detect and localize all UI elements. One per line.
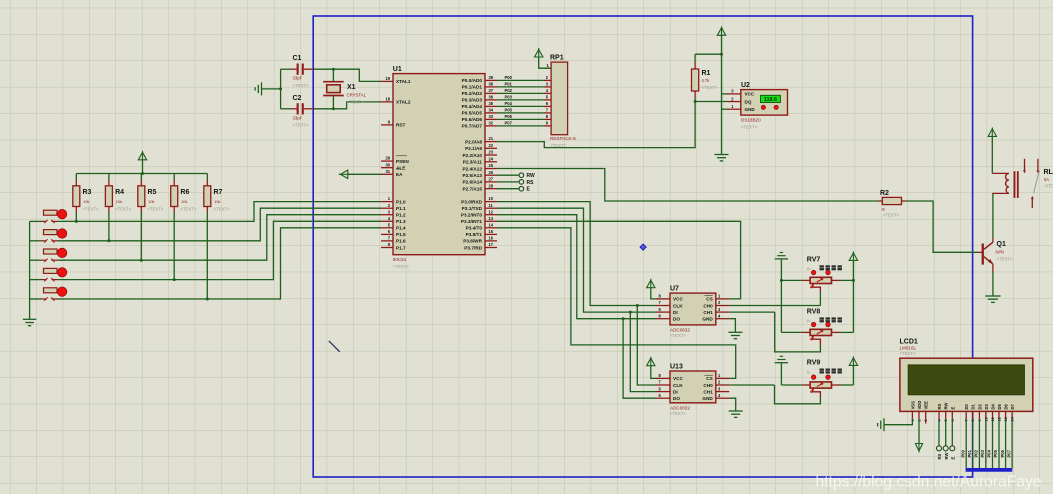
svg-text:R4: R4	[115, 189, 124, 196]
wire LCD D2 to bus	[978, 419, 980, 468]
junction cap rail	[279, 87, 282, 90]
svg-text:P03: P03	[980, 449, 985, 457]
svg-text:CH1: CH1	[703, 310, 713, 315]
wire LCD D0 to bus	[965, 419, 967, 468]
resistor R1	[694, 54, 696, 62]
svg-text:30: 30	[385, 162, 390, 167]
LCD pin 6 E	[951, 411, 953, 419]
svg-text:P0.7/AD7: P0.7/AD7	[462, 124, 483, 129]
svg-text:P0.2/AD2: P0.2/AD2	[462, 91, 483, 96]
wire P3.1 to U7 DI	[497, 208, 656, 312]
svg-text:R6: R6	[180, 189, 189, 196]
svg-text:P06: P06	[1000, 449, 1005, 457]
junction R7 row	[206, 298, 209, 301]
wire CLK tap to U13	[637, 306, 656, 386]
LCD pin 11 D4	[992, 411, 994, 419]
svg-text:P3.3/INT1: P3.3/INT1	[461, 219, 482, 224]
adc U7 body	[670, 293, 716, 325]
U7 pin 6 DO	[656, 318, 670, 320]
svg-text:39: 39	[489, 75, 494, 80]
svg-text:P07: P07	[1006, 449, 1011, 457]
svg-text:P04: P04	[987, 449, 992, 457]
svg-text:15: 15	[489, 229, 494, 234]
RP1 pin 7	[544, 112, 552, 114]
U7 pin 2 CH0	[716, 305, 730, 307]
wire C1 to XTAL1	[314, 69, 382, 81]
resistor pack RP1	[551, 62, 568, 135]
svg-text:D6: D6	[1004, 403, 1009, 409]
wire RV7 right	[840, 279, 853, 281]
svg-text:VCC: VCC	[673, 297, 684, 302]
wire P3.3 to U7 CS	[497, 221, 741, 299]
svg-text:RW: RW	[944, 453, 949, 460]
svg-text:<TEXT>: <TEXT>	[393, 264, 409, 269]
terminal RS (LCD)	[938, 419, 940, 446]
svg-text:1k: 1k	[881, 206, 885, 211]
U7 pin 5 DI	[656, 311, 670, 313]
wire RV9 wiper to U13 CH0	[775, 385, 821, 404]
ground (RV rail upper)	[780, 252, 783, 254]
U1 pin 32 P0.7/AD7	[485, 125, 497, 127]
wire P3.4 to U13 CS	[497, 228, 736, 379]
U1 pin 22 P2.1/A9	[485, 147, 497, 149]
svg-text:25: 25	[489, 163, 494, 168]
power arrow down (LCD VDD)	[918, 419, 920, 443]
svg-text:33: 33	[489, 114, 494, 119]
svg-text:RV8: RV8	[807, 309, 821, 316]
junction R3 row	[75, 220, 78, 223]
power arrow (U7)	[647, 280, 655, 288]
origin marker	[640, 244, 646, 250]
junction CLK tap	[636, 304, 639, 307]
power arrow (DS18B20 rail)	[717, 28, 725, 36]
wire EA	[348, 173, 381, 175]
U1 pin 7 P1.6	[381, 240, 393, 242]
relay contact NO pin	[1037, 159, 1039, 171]
svg-text:LCD1: LCD1	[900, 338, 918, 345]
svg-text:DS18B20: DS18B20	[741, 117, 761, 122]
LCD pin 10 D3	[985, 411, 987, 419]
svg-text:RP1: RP1	[550, 55, 564, 62]
svg-text:P2.7/A15: P2.7/A15	[462, 187, 482, 192]
svg-text:CS: CS	[706, 376, 713, 381]
RV8 right lead	[832, 331, 841, 333]
key button 4	[30, 279, 41, 281]
U13 pin 1 CS	[716, 377, 730, 379]
U1 pin 16 P3.6/WR	[485, 240, 497, 242]
wire C2 to XTAL2	[314, 102, 382, 109]
junction DI tap	[629, 311, 632, 314]
svg-text:R5: R5	[148, 189, 157, 196]
wire DQ to U2	[695, 101, 728, 103]
svg-text:VEE: VEE	[924, 401, 929, 410]
svg-text:P1.3: P1.3	[396, 219, 406, 224]
wire RV power rail	[852, 260, 854, 332]
relay switch arm	[1034, 171, 1040, 193]
svg-text:19: 19	[385, 76, 390, 81]
svg-text:P2.5/A13: P2.5/A13	[462, 173, 482, 178]
svg-text:LM016L: LM016L	[900, 345, 917, 350]
wire RV7 wiper to U7 CH0	[819, 292, 821, 305]
svg-text:14: 14	[489, 222, 494, 227]
junction crystal top	[332, 68, 335, 71]
svg-text:U13: U13	[670, 364, 683, 371]
wire DI tap to U13	[630, 312, 656, 392]
svg-text:<TEXT>: <TEXT>	[883, 213, 899, 218]
U13 pin 2 CH0	[716, 384, 730, 386]
power arrow (RV9)	[849, 358, 857, 366]
svg-text:RL1: RL1	[1044, 169, 1053, 176]
junction RV7 left	[780, 279, 783, 282]
svg-text:CLK: CLK	[673, 303, 683, 308]
svg-text:119.6: 119.6	[764, 97, 777, 103]
wire U2 GND	[722, 108, 729, 110]
svg-text:P01: P01	[967, 449, 972, 457]
svg-text:10k: 10k	[181, 199, 187, 204]
U7 pin 8 VCC	[656, 298, 670, 300]
svg-text:<TEXT>: <TEXT>	[670, 411, 686, 416]
wire LCD VSS to ground	[884, 419, 912, 425]
capacitor C2	[281, 108, 291, 110]
wire RV8 left	[781, 331, 801, 333]
wire ground to cap rail	[262, 88, 281, 90]
wire R4 to key row 2	[108, 213, 110, 241]
svg-text:21: 21	[489, 136, 494, 141]
key button 5	[30, 298, 41, 300]
LCD pin 4 RS	[938, 411, 940, 419]
U2 button dots	[761, 105, 765, 109]
U7 pin 7 CLK	[656, 305, 670, 307]
svg-text:P0.1/AD1: P0.1/AD1	[462, 85, 483, 90]
wire U7 GND to ground	[729, 319, 735, 332]
wire RV8 right	[840, 331, 853, 333]
wire Q1 collector to relay	[992, 238, 994, 242]
relay core	[1014, 171, 1016, 198]
junction RV7 right	[852, 279, 855, 282]
svg-text:X1: X1	[347, 84, 356, 91]
ground (RV9 rail)	[780, 355, 783, 357]
wire LCD D1 to bus	[972, 419, 974, 468]
U1 pin 3 P1.2	[381, 214, 393, 216]
svg-text:RW: RW	[527, 173, 536, 179]
U1 pin 36 P0.3/AD3	[485, 99, 497, 101]
RP1 pin 8	[544, 118, 552, 120]
svg-text:33pF: 33pF	[293, 76, 303, 81]
power arrow (RP1)	[535, 50, 543, 58]
U1 pin 37 P0.2/AD2	[485, 92, 497, 94]
wire R3 to key row 1	[75, 213, 77, 222]
RP1 pin 6	[544, 105, 552, 107]
RP1 pin 4	[544, 92, 552, 94]
svg-text:P00: P00	[505, 75, 513, 80]
svg-text:P3.6/WR: P3.6/WR	[463, 239, 482, 244]
wire power rail to ground (U2 column)	[721, 35, 723, 154]
ground (U13)	[729, 410, 743, 412]
RV7 wiper	[813, 284, 821, 293]
lcd screen	[908, 365, 1024, 395]
svg-text:R2: R2	[880, 190, 889, 197]
wire P2.4 to R2	[497, 169, 878, 202]
wire RV9 power stem	[852, 365, 854, 385]
svg-text:CH1: CH1	[703, 389, 713, 394]
RV8 wiper	[813, 336, 821, 345]
bus segment	[966, 468, 1013, 472]
svg-text:13: 13	[489, 216, 494, 221]
svg-text:CRYSTAL: CRYSTAL	[347, 92, 367, 97]
U1 pin 26 P2.5/A13	[485, 174, 497, 176]
U7 pin 4 GND	[716, 318, 730, 320]
svg-text:VCC: VCC	[745, 92, 755, 97]
U1 pin 19 XTAL1	[381, 80, 393, 82]
svg-text:RESPACK-8: RESPACK-8	[550, 136, 576, 141]
wire key ground rail	[29, 221, 31, 319]
pot RV9	[810, 382, 831, 388]
U2 display	[761, 95, 781, 102]
svg-text:12: 12	[489, 209, 494, 214]
wire R2 to Q1 base	[906, 201, 978, 252]
svg-text:C1: C1	[293, 55, 302, 62]
U13 pin 8 VCC	[656, 377, 670, 379]
power arrow (pullup rail)	[138, 152, 146, 160]
U13 pin 7 CLK	[656, 384, 670, 386]
svg-text:<TEXT>: <TEXT>	[900, 351, 916, 356]
resistor R2	[878, 200, 882, 202]
svg-text:P2.0/A8: P2.0/A8	[465, 139, 482, 144]
wire key 1 to P1.0	[58, 202, 382, 222]
svg-text:RV7: RV7	[807, 257, 821, 264]
svg-text:4.7k: 4.7k	[702, 78, 711, 83]
LCD VEE stub	[925, 419, 927, 424]
svg-text:10k: 10k	[214, 199, 220, 204]
wire LCD D6 to bus	[1005, 419, 1007, 468]
RV9 wiper	[813, 388, 821, 397]
svg-text:P3.0/RXD: P3.0/RXD	[461, 199, 482, 204]
svg-text:GND: GND	[745, 107, 756, 112]
svg-text:U2: U2	[741, 82, 750, 89]
svg-text:P07: P07	[505, 120, 513, 125]
svg-text:XTAL1: XTAL1	[396, 79, 411, 84]
wire P07 U1 to RP1	[497, 125, 544, 127]
svg-text:10: 10	[489, 196, 494, 201]
svg-text:P00: P00	[960, 449, 965, 457]
wire key 3 to P1.2	[58, 215, 382, 261]
svg-text:ALE: ALE	[396, 166, 405, 171]
wire LCD D4 to bus	[992, 419, 994, 468]
U1 pin 25 P2.4/A12	[485, 168, 497, 170]
svg-text:NPN: NPN	[996, 250, 1005, 255]
LCD pin 2 VDD	[918, 411, 920, 419]
LCD pin 8 D1	[972, 411, 974, 419]
terminal RS	[497, 181, 519, 183]
U1 pin 6 P1.5	[381, 233, 393, 235]
capacitor C1	[281, 68, 291, 70]
svg-text:D7: D7	[1010, 403, 1015, 409]
svg-text:1k: 1k	[806, 369, 810, 374]
svg-text:P3.2/INT0: P3.2/INT0	[461, 213, 482, 218]
U1 pin 34 P0.5/AD5	[485, 112, 497, 114]
power arrow (RV rail)	[849, 253, 857, 261]
wire key 2 to P1.1	[58, 208, 382, 241]
svg-text:38: 38	[489, 82, 494, 87]
svg-text:<TEXT>: <TEXT>	[741, 124, 757, 129]
U1 pin 12 P3.2/INT0	[485, 214, 497, 216]
ground (Q1)	[985, 295, 1000, 297]
RP1 pin 5	[544, 99, 552, 101]
svg-text:R7: R7	[214, 189, 223, 196]
svg-text:33pF: 33pF	[293, 115, 303, 120]
U1 pin 24 P2.3/A11	[485, 161, 497, 163]
svg-text:26: 26	[489, 170, 494, 175]
svg-text:ADC0832: ADC0832	[670, 327, 690, 332]
svg-text:U7: U7	[670, 286, 679, 293]
junction R5 row	[140, 259, 143, 262]
wire cap left rail	[280, 69, 282, 109]
svg-text:P03: P03	[505, 94, 513, 99]
svg-text:18: 18	[385, 97, 390, 102]
RP1 pin 2	[544, 79, 552, 81]
junction R1 top branch	[720, 53, 723, 56]
junction R4 row	[107, 239, 110, 242]
blue boundary box	[313, 16, 972, 477]
U1 pin 23 P2.2/A10	[485, 154, 497, 156]
wire relay coil bottom	[992, 192, 1009, 194]
svg-text:DO: DO	[673, 317, 680, 322]
mcu U1 body	[393, 74, 485, 255]
wire R6 to key row 4	[173, 213, 175, 280]
svg-text:CH0: CH0	[703, 383, 713, 388]
svg-text:RS: RS	[937, 403, 942, 409]
terminal E	[497, 188, 519, 190]
transistor Q1	[978, 251, 982, 253]
LCD pin 7 D0	[965, 411, 967, 419]
svg-text:1k: 1k	[806, 266, 810, 271]
ground (U2)	[715, 154, 729, 156]
svg-text:DI: DI	[673, 389, 678, 394]
U1 pin 11 P3.1/TXD	[485, 207, 497, 209]
wire P3.0 to U7 CLK	[497, 202, 656, 306]
sensor U2 DS18B20	[741, 90, 788, 116]
svg-text:https://blog.csdn.net/AuroraFa: https://blog.csdn.net/AuroraFaye	[816, 474, 1042, 491]
U1 pin 33 P0.6/AD6	[485, 118, 497, 120]
ground (keys)	[23, 318, 36, 320]
svg-text:27: 27	[489, 177, 494, 182]
LCD pin 12 D5	[998, 411, 1000, 419]
resistor R5	[140, 174, 142, 180]
wire P06 U1 to RP1	[497, 118, 544, 120]
svg-text:5A: 5A	[1044, 177, 1049, 182]
wire pullup rail	[142, 160, 144, 174]
power arrow (U13)	[647, 358, 655, 366]
svg-text:P1.2: P1.2	[396, 213, 406, 218]
wire crystal top	[332, 69, 334, 81]
junction pullup rail	[141, 172, 144, 175]
svg-text:11: 11	[489, 203, 494, 208]
svg-text:GND: GND	[702, 317, 713, 322]
svg-text:P1.0: P1.0	[396, 199, 406, 204]
svg-text:CLK: CLK	[673, 383, 683, 388]
wire RV ground rail	[780, 259, 782, 333]
svg-text:37: 37	[489, 88, 494, 93]
wire R7 to key row 5	[206, 213, 208, 300]
U1 pin 9 RST	[381, 124, 393, 126]
ground (LCD VSS)	[883, 418, 885, 431]
svg-text:16: 16	[489, 236, 494, 241]
power arrow (relay)	[988, 129, 996, 137]
power arrow (EA)	[340, 170, 348, 178]
U1 pin 5 P1.4	[381, 227, 393, 229]
svg-text:E: E	[951, 457, 956, 460]
svg-text:P1.1: P1.1	[396, 206, 406, 211]
terminal RW (LCD)	[945, 419, 947, 446]
wire P01 U1 to RP1	[497, 86, 544, 88]
wire LCD D5 to bus	[998, 419, 1000, 468]
svg-text:P02: P02	[505, 88, 513, 93]
ground (U7)	[728, 331, 742, 333]
svg-text:ADC0832: ADC0832	[670, 405, 690, 410]
U1 pin 38 P0.1/AD1	[485, 86, 497, 88]
key button 1	[30, 220, 41, 222]
svg-text:P05: P05	[505, 107, 513, 112]
U1 pin 31 EA	[381, 173, 393, 175]
svg-text:P2.6/A14: P2.6/A14	[462, 180, 482, 185]
svg-text:29: 29	[385, 156, 390, 161]
U1 pin 39 P0.0/AD0	[485, 79, 497, 81]
U1 pin 1 P1.0	[381, 201, 393, 203]
RV8 left lead	[802, 331, 810, 333]
wire P00 U1 to RP1	[497, 79, 544, 81]
LCD pin 1 VSS	[911, 411, 913, 419]
RP1 pin 3	[544, 86, 552, 88]
svg-text:10k: 10k	[116, 199, 122, 204]
resistor R7	[206, 174, 208, 180]
svg-text:E: E	[950, 407, 955, 410]
resistor R3	[75, 174, 77, 180]
U1 pin 28 P2.7/A15	[485, 188, 497, 190]
svg-text:<TEXT>: <TEXT>	[148, 207, 164, 212]
LCD pin 9 D2	[978, 411, 980, 419]
U1 pin 29 PSEN	[381, 160, 393, 162]
svg-text:GND: GND	[702, 396, 713, 401]
svg-text:P2.2/A10: P2.2/A10	[462, 153, 482, 158]
svg-text:RS: RS	[527, 180, 535, 186]
junction DQ	[694, 100, 697, 103]
svg-text:XTAL2: XTAL2	[396, 100, 411, 105]
svg-text:<TEXT>: <TEXT>	[214, 207, 230, 212]
svg-text:D4: D4	[991, 403, 996, 409]
U7 pin 1 CS	[716, 298, 730, 300]
svg-text:PSEN: PSEN	[396, 159, 409, 164]
svg-text:P2.4/A12: P2.4/A12	[462, 166, 482, 171]
wire RV9 right	[840, 384, 853, 386]
svg-text:P3.4/T0: P3.4/T0	[466, 226, 483, 231]
wire LCD D7 to bus	[1011, 419, 1013, 468]
U13 pin 3 CH1	[716, 391, 730, 393]
U1 pin 35 P0.4/AD4	[485, 105, 497, 107]
svg-text:R3: R3	[83, 189, 92, 196]
svg-text:P2.1/A9: P2.1/A9	[465, 146, 482, 151]
relay common pin	[1031, 196, 1034, 199]
U1 pin 10 P3.0/RXD	[485, 201, 497, 203]
RV7 left lead	[802, 279, 810, 281]
key button 3	[30, 259, 41, 261]
junction R6 row	[173, 278, 176, 281]
svg-text:80C51: 80C51	[393, 257, 407, 262]
svg-text:<TEXT>: <TEXT>	[293, 123, 309, 128]
svg-text:<TEXT>: <TEXT>	[997, 256, 1013, 261]
svg-text:22: 22	[489, 143, 494, 148]
wire U7 VCC power	[651, 288, 656, 299]
svg-text:D3: D3	[984, 403, 989, 409]
